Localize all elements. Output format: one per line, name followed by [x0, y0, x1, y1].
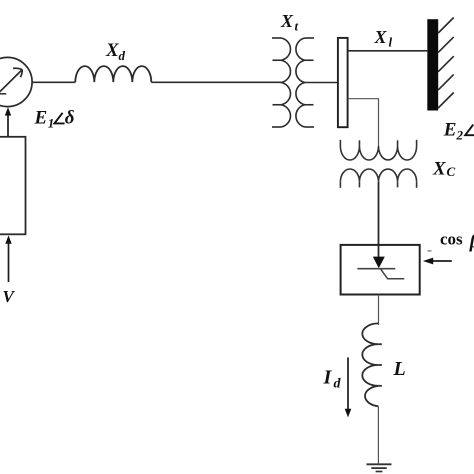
thyristor gate: [381, 269, 405, 278]
wire Xd to transformer: [151, 81, 281, 83]
small tick mark: [428, 250, 432, 252]
svg-text:d: d: [119, 48, 126, 63]
arrow from exciter box up into generator: [5, 107, 11, 137]
svg-text:E: E: [34, 108, 48, 129]
wire generator to Xd: [32, 81, 75, 83]
generator pivot dash: [0, 93, 6, 95]
wire bus to Xc coupling: [348, 99, 379, 146]
arrow V into exciter box bottom: [5, 235, 11, 282]
svg-text:X: X: [432, 159, 447, 180]
generator needle: [0, 68, 22, 97]
svg-text:X: X: [280, 11, 294, 31]
thyristor cathode bar: [357, 268, 395, 270]
Xc coupled winding bottom: [340, 169, 416, 188]
svg-text:L: L: [393, 358, 406, 380]
wire Xl from bus to infinite bus: [348, 50, 428, 52]
infinite bus hatching: [438, 18, 454, 109]
arrow cos beta into box: [423, 258, 452, 265]
Xc coupled winding top: [340, 140, 416, 160]
thyristor arrow head: [373, 257, 385, 269]
ground symbol: [367, 464, 392, 471]
infinite bus black bar: [427, 19, 438, 110]
exciter box (rectangle, left edge off-canvas): [0, 137, 26, 235]
svg-text:2: 2: [456, 128, 464, 143]
inductor L (4 left-bulging loops): [362, 323, 382, 406]
wire transformer to bus: [305, 82, 338, 84]
thyristor box: [341, 245, 420, 295]
wire box to inductor L: [378, 295, 380, 326]
transformer Xt left winding: [272, 38, 290, 127]
transformer Xt right winding: [296, 38, 314, 127]
svg-text:β: β: [469, 232, 474, 253]
reactance Xd (series inductor, 4 humps): [75, 66, 151, 82]
wire Xc to thyristor box: [378, 182, 380, 257]
generator G1 circle: [0, 57, 32, 106]
svg-text:C: C: [447, 164, 456, 179]
svg-text:δ: δ: [65, 108, 75, 129]
svg-text:X: X: [374, 27, 388, 47]
wire L to ground: [377, 406, 379, 464]
bus bar: [338, 38, 348, 127]
svg-text:d: d: [334, 377, 342, 392]
svg-text:l: l: [389, 35, 393, 50]
arrow Id (downward): [345, 357, 352, 417]
svg-text:E: E: [443, 119, 457, 140]
svg-text:t: t: [295, 19, 299, 34]
svg-text:cos: cos: [440, 229, 463, 248]
svg-text:I: I: [323, 367, 333, 389]
svg-text:1: 1: [48, 116, 55, 131]
svg-text:V: V: [3, 287, 16, 306]
